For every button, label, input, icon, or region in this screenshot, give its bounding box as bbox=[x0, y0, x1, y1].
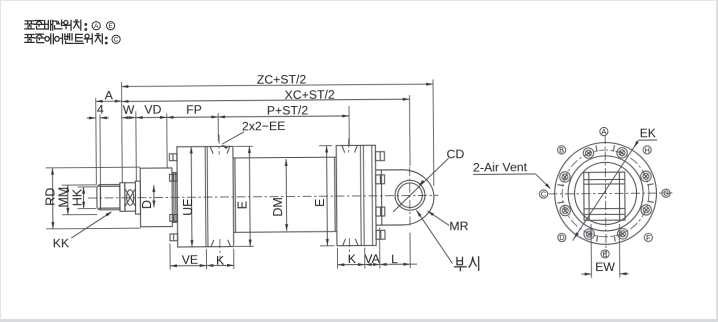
dim E left bbox=[234, 145, 253, 147]
dim EW bbox=[590, 224, 592, 278]
svg-text:XC+ST/2: XC+ST/2 bbox=[284, 87, 335, 101]
gland boss bbox=[140, 167, 172, 226]
dim P+ST/2 bbox=[218, 115, 349, 116]
dim W bbox=[121, 116, 135, 118]
svg-text:FP: FP bbox=[186, 102, 202, 116]
clevis pin hole circle CD bbox=[397, 182, 422, 207]
gland bolts bbox=[169, 153, 177, 160]
dim RD bbox=[45, 166, 139, 169]
front head (rod cover) bbox=[176, 146, 233, 247]
svg-text:C: C bbox=[540, 189, 546, 198]
dim FP bbox=[166, 115, 217, 117]
dim MM bbox=[61, 183, 95, 185]
dim HK bbox=[77, 185, 95, 187]
svg-text:EW: EW bbox=[595, 260, 615, 274]
bush label (hangul) bbox=[454, 257, 466, 270]
korean note line1: standard piping position A E bbox=[24, 20, 33, 28]
svg-text:MM: MM bbox=[56, 186, 70, 207]
dim VD bbox=[135, 116, 166, 118]
pin centerline dashdot bbox=[408, 167, 410, 228]
dim DM bbox=[285, 159, 288, 231]
svg-text:G: G bbox=[663, 188, 669, 197]
korean note line2: standard air vent position C bbox=[24, 34, 33, 42]
svg-text:A: A bbox=[601, 127, 606, 136]
front port chamfer ticks bbox=[210, 146, 213, 153]
svg-text:MR: MR bbox=[449, 219, 468, 233]
svg-text:E: E bbox=[108, 23, 113, 30]
svg-text:4: 4 bbox=[96, 102, 103, 116]
dim E right bbox=[319, 144, 332, 146]
extension lines bottom bbox=[168, 243, 170, 269]
dim K front bbox=[206, 264, 233, 266]
main centerline bbox=[87, 195, 437, 198]
technical drawing (slightly skewed scan) bbox=[0, 0, 1, 1]
rear port chamfer ticks bbox=[341, 145, 344, 152]
dim UE bbox=[190, 146, 193, 246]
svg-text:D: D bbox=[559, 233, 564, 242]
svg-text:2-Air Vent: 2-Air Vent bbox=[473, 159, 528, 173]
cylinder tube bbox=[233, 157, 236, 231]
end view centerlines bbox=[548, 191, 672, 194]
clevis slab end-on bbox=[583, 172, 624, 220]
svg-text:ZC+ST/2: ZC+ST/2 bbox=[256, 72, 306, 86]
bush leader (label drawn as glyphs below) bbox=[416, 209, 452, 263]
wrench flats (X section) bbox=[124, 182, 135, 210]
dim D bbox=[152, 185, 154, 207]
svg-text:H: H bbox=[644, 145, 649, 154]
svg-text:E: E bbox=[235, 200, 249, 208]
flange bolts x8 bbox=[640, 171, 650, 181]
piston rod thread KK bbox=[96, 184, 119, 209]
svg-text:2x2−EE: 2x2−EE bbox=[241, 119, 285, 133]
rear cover bolts bbox=[375, 151, 384, 160]
gland retainer rings bbox=[172, 172, 174, 222]
svg-text:D: D bbox=[140, 199, 154, 208]
svg-text:E: E bbox=[602, 249, 607, 258]
svg-text:VA: VA bbox=[364, 251, 380, 265]
svg-text:UE: UE bbox=[180, 198, 194, 215]
svg-text:B: B bbox=[559, 145, 564, 154]
svg-text:EK: EK bbox=[639, 126, 655, 140]
end view pilot circle bbox=[567, 155, 643, 231]
dim VA bbox=[364, 263, 379, 265]
extension lines top bbox=[94, 98, 97, 185]
dim XC+ST/2 bbox=[121, 99, 409, 101]
svg-text:F: F bbox=[646, 233, 651, 242]
dim L bbox=[379, 263, 409, 265]
bolt circle dashdot bbox=[561, 149, 648, 236]
rear head (cap cover) bbox=[336, 145, 376, 246]
svg-text:W: W bbox=[122, 102, 134, 116]
svg-text:K: K bbox=[347, 251, 356, 265]
svg-text:RD: RD bbox=[43, 187, 57, 205]
svg-text:E: E bbox=[312, 198, 326, 206]
svg-text:A: A bbox=[93, 23, 98, 30]
svg-text:A: A bbox=[104, 88, 113, 102]
rod collar bbox=[135, 181, 140, 214]
clevis bush outer circle bbox=[394, 180, 424, 210]
rear port center dashdot bbox=[347, 138, 349, 153]
svg-text:KK: KK bbox=[52, 236, 69, 250]
rod neck bbox=[119, 182, 124, 211]
svg-text:P+ST/2: P+ST/2 bbox=[266, 103, 308, 117]
svg-text:DM: DM bbox=[270, 197, 284, 217]
svg-text:VD: VD bbox=[144, 102, 161, 116]
port position letters bbox=[599, 127, 607, 135]
svg-text:CD: CD bbox=[446, 146, 464, 160]
svg-text:C: C bbox=[113, 36, 118, 43]
front port center dashdot bbox=[218, 134, 220, 154]
end view outer circle bbox=[554, 142, 657, 245]
dim ZC+ST/2 bbox=[121, 84, 432, 86]
dim 4 bbox=[86, 116, 95, 118]
svg-text:L: L bbox=[391, 251, 398, 265]
svg-text:HK: HK bbox=[70, 188, 84, 206]
port silhouette ticks bbox=[647, 201, 653, 202]
dim K rear bbox=[337, 263, 364, 265]
svg-text:VE: VE bbox=[181, 252, 198, 266]
clevis eye profile bbox=[375, 169, 433, 225]
dim VE bbox=[170, 264, 206, 266]
end view bore circle bbox=[574, 162, 636, 224]
svg-text:K: K bbox=[215, 253, 224, 267]
dim A bbox=[95, 100, 121, 102]
